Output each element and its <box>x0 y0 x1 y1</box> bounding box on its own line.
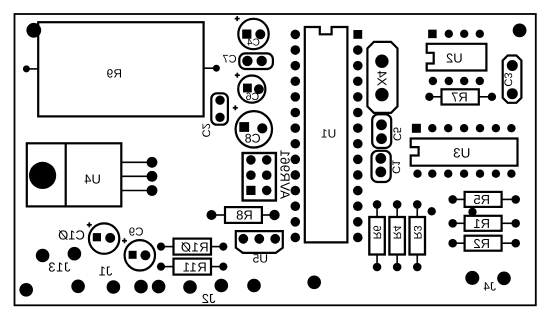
svg-text:C4: C4 <box>247 38 260 49</box>
svg-text:J4: J4 <box>483 280 496 294</box>
svg-text:R1: R1 <box>473 216 490 231</box>
svg-text:C9: C9 <box>129 226 144 238</box>
svg-text:R2: R2 <box>473 236 490 251</box>
svg-text:C1: C1 <box>390 160 402 174</box>
svg-text:U3: U3 <box>453 145 470 160</box>
svg-text:U5: U5 <box>252 252 268 266</box>
svg-text:U4: U4 <box>84 171 101 186</box>
svg-text:C3: C3 <box>502 73 514 87</box>
svg-text:R1Ø: R1Ø <box>180 239 208 254</box>
svg-text:C8: C8 <box>245 132 261 146</box>
svg-text:R5: R5 <box>473 192 490 207</box>
svg-text:R3: R3 <box>411 225 423 239</box>
svg-text:C1Ø: C1Ø <box>58 228 85 243</box>
svg-text:J13: J13 <box>48 259 71 274</box>
svg-text:R7: R7 <box>451 90 468 105</box>
svg-text:J2: J2 <box>202 291 216 306</box>
svg-text:C5: C5 <box>390 127 402 141</box>
svg-text:R8: R8 <box>236 208 253 223</box>
svg-text:C7: C7 <box>223 53 237 65</box>
svg-text:R6: R6 <box>371 225 383 239</box>
svg-text:U2: U2 <box>446 51 463 66</box>
svg-text:R11: R11 <box>182 259 206 274</box>
svg-text:AVR961: AVR961 <box>278 149 293 199</box>
svg-text:J1: J1 <box>99 264 113 279</box>
svg-text:U1: U1 <box>321 127 337 141</box>
svg-text:R4: R4 <box>391 225 403 239</box>
svg-text:X4: X4 <box>375 71 390 86</box>
svg-text:C2: C2 <box>200 123 212 137</box>
svg-text:R9: R9 <box>106 67 122 81</box>
svg-text:C6: C6 <box>246 91 260 103</box>
